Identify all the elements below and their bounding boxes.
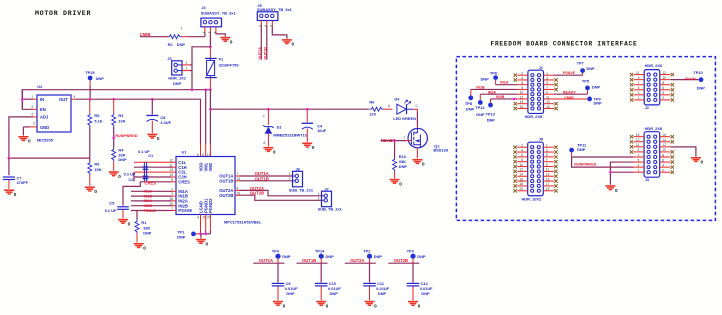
svg-text:13: 13 bbox=[170, 168, 174, 172]
wire READY to Q2 gate bbox=[381, 140, 407, 142]
test point TP4 bbox=[275, 254, 280, 259]
header J2 HDR_2X6 bbox=[630, 63, 674, 110]
test point TP3 bbox=[410, 254, 415, 259]
wire J4 pin2 to F1 bbox=[209, 33, 211, 47]
capacitor C9 0.01UF DNP bbox=[272, 281, 298, 300]
wire OUT2A stub bbox=[345, 262, 376, 264]
svg-text:5: 5 bbox=[638, 158, 640, 162]
wire rail to ground bbox=[200, 234, 202, 239]
svg-text:12: 12 bbox=[662, 71, 666, 75]
svg-text:12: 12 bbox=[662, 143, 666, 147]
svg-text:0: 0 bbox=[143, 246, 146, 251]
svg-text:MMBZ5231BWT1G: MMBZ5231BWT1G bbox=[273, 132, 307, 137]
svg-text:1: 1 bbox=[638, 96, 640, 100]
svg-text:TP5: TP5 bbox=[582, 78, 590, 83]
svg-text:VM2: VM2 bbox=[208, 162, 213, 171]
wire OUT1A bbox=[240, 175, 293, 177]
ground at C9 bbox=[273, 301, 286, 309]
svg-text:7: 7 bbox=[546, 86, 548, 90]
U1 pin 17 VM2 bbox=[207, 153, 213, 172]
svg-text:IN1B: IN1B bbox=[144, 194, 153, 198]
svg-text:PSAVE: PSAVE bbox=[563, 71, 576, 75]
svg-text:7: 7 bbox=[638, 81, 640, 85]
svg-text:9: 9 bbox=[546, 163, 548, 167]
svg-text:DNP: DNP bbox=[481, 76, 490, 81]
svg-text:DNP: DNP bbox=[177, 234, 186, 239]
svg-text:12: 12 bbox=[170, 158, 174, 162]
svg-text:R5: R5 bbox=[94, 113, 100, 118]
ground at J5 bbox=[282, 39, 295, 47]
wire J3 pin 1 to ground bbox=[610, 171, 633, 173]
U1 pin 3 IN1B bbox=[171, 192, 188, 199]
wire ANLIN from J2 bbox=[670, 79, 698, 81]
svg-text:OUT1B: OUT1B bbox=[302, 258, 316, 263]
junction LGND bbox=[199, 233, 202, 236]
test point TP9 bbox=[587, 97, 592, 102]
svg-text:TP3: TP3 bbox=[407, 248, 415, 253]
ground at R10 bbox=[390, 179, 403, 187]
svg-text:0: 0 bbox=[615, 188, 618, 193]
junction ADJ / C7 bbox=[8, 157, 11, 160]
capacitor C11 0.01UF DNP bbox=[363, 281, 389, 300]
svg-text:TP4: TP4 bbox=[272, 248, 280, 253]
ground at R9 bbox=[85, 187, 98, 195]
svg-text:HDR_10X2: HDR_10X2 bbox=[522, 197, 543, 202]
svg-text:D1: D1 bbox=[277, 124, 283, 129]
svg-text:15: 15 bbox=[546, 105, 550, 109]
U1 pin 9 CRES bbox=[171, 178, 190, 185]
svg-text:TP15: TP15 bbox=[85, 70, 95, 75]
svg-text:14: 14 bbox=[520, 173, 524, 177]
svg-text:11: 11 bbox=[546, 168, 550, 172]
U1 pin 11 C1H bbox=[170, 163, 187, 170]
svg-text:R2: R2 bbox=[168, 42, 174, 47]
resistor R6 220 bbox=[369, 99, 392, 116]
svg-text:0: 0 bbox=[94, 189, 97, 194]
U1 pin 12 C1L bbox=[170, 158, 187, 165]
wire C1H bbox=[134, 166, 172, 168]
svg-text:DNP: DNP bbox=[417, 254, 426, 259]
svg-text:1: 1 bbox=[31, 95, 33, 99]
capacitor C1 0.1UF bbox=[138, 149, 154, 181]
junction at J4 pin2 / F1 bbox=[209, 46, 212, 49]
svg-text:13: 13 bbox=[546, 100, 550, 104]
ground at U2 bbox=[18, 136, 31, 144]
wire R2 to J4 pin1 bbox=[187, 36, 205, 38]
svg-text:C2: C2 bbox=[128, 177, 134, 182]
svg-text:CRES: CRES bbox=[145, 181, 157, 186]
svg-text:0.1 UF: 0.1 UF bbox=[124, 171, 136, 176]
svg-text:U1: U1 bbox=[182, 149, 188, 154]
wire TP15 to rail2 bbox=[89, 80, 91, 86]
svg-text:10K: 10K bbox=[118, 119, 125, 124]
svg-text:6: 6 bbox=[662, 158, 664, 162]
ground at C11 bbox=[365, 301, 378, 309]
resistor R4 33K DNP bbox=[112, 148, 127, 171]
svg-text:DNP: DNP bbox=[421, 291, 430, 296]
U1 pin 15 PGND1 bbox=[202, 198, 208, 220]
wire RUNPWRGD to J3 pin 3 bbox=[572, 157, 634, 167]
wire OUT2B stub bbox=[388, 262, 419, 264]
svg-text:0: 0 bbox=[28, 139, 31, 144]
ground at C10 bbox=[316, 301, 329, 309]
svg-text:RUNPWRGD: RUNPWRGD bbox=[115, 134, 137, 138]
wire TP4 to C9 bbox=[277, 259, 279, 263]
resistor R1 33K DNP bbox=[135, 211, 152, 243]
wire LGND/PGND pins bbox=[200, 215, 202, 232]
capacitor C5 0.1UF bbox=[105, 182, 141, 219]
svg-text:15K: 15K bbox=[94, 167, 101, 172]
wire TP2 to C11 bbox=[369, 259, 371, 263]
U1 pin 18 IN2A bbox=[170, 197, 188, 204]
svg-text:14: 14 bbox=[662, 138, 666, 142]
wire J5 pin2 net OUT1B bbox=[266, 26, 268, 59]
svg-text:4: 4 bbox=[197, 216, 199, 220]
svg-text:2: 2 bbox=[181, 27, 183, 31]
svg-text:TP7: TP7 bbox=[577, 60, 584, 65]
svg-text:DNP: DNP bbox=[399, 164, 408, 169]
svg-text:11: 11 bbox=[636, 71, 640, 75]
svg-text:DNP: DNP bbox=[286, 291, 295, 296]
svg-text:HDR_2X8: HDR_2X8 bbox=[525, 114, 543, 119]
U1 pin 8 OUT2A bbox=[219, 187, 239, 194]
svg-text:DNP: DNP bbox=[586, 66, 595, 71]
svg-text:2: 2 bbox=[318, 197, 320, 201]
svg-text:8: 8 bbox=[237, 187, 239, 191]
svg-text:3: 3 bbox=[546, 76, 548, 80]
svg-text:DNP: DNP bbox=[173, 81, 182, 86]
wire TP1 to LGND rail bbox=[196, 233, 201, 235]
svg-text:R1: R1 bbox=[141, 220, 147, 225]
svg-text:DNP: DNP bbox=[594, 100, 603, 105]
driver IC U1 MPC17531ATEVBEL bbox=[176, 149, 262, 224]
svg-text:RUNPWRGD: RUNPWRGD bbox=[574, 163, 596, 167]
svg-text:BSS138: BSS138 bbox=[433, 148, 448, 153]
wire U2 GND to ground bbox=[23, 126, 30, 128]
svg-text:11: 11 bbox=[546, 95, 550, 99]
svg-text:6: 6 bbox=[521, 153, 523, 157]
svg-text:12: 12 bbox=[520, 168, 524, 172]
svg-text:2: 2 bbox=[289, 177, 291, 181]
svg-text:R3: R3 bbox=[118, 113, 124, 118]
test point TP7 bbox=[580, 68, 585, 73]
wire VDD pin stub bbox=[200, 144, 202, 157]
ground at C8 bbox=[147, 134, 160, 142]
junction VM2/F1 on rail1 bbox=[209, 88, 212, 91]
svg-text:0: 0 bbox=[283, 303, 286, 308]
svg-text:5: 5 bbox=[74, 95, 76, 99]
connector J4 SUBASSY_TB_3x1 bbox=[201, 5, 237, 34]
svg-text:IN1B: IN1B bbox=[476, 86, 485, 90]
ground in freedom box (left) bbox=[605, 185, 618, 193]
wire U2 ADJ feedback bbox=[9, 117, 90, 158]
svg-text:17: 17 bbox=[546, 182, 550, 186]
wire C1L bbox=[134, 161, 172, 163]
test point TP15 bbox=[88, 76, 93, 81]
svg-text:19: 19 bbox=[546, 187, 550, 191]
svg-text:FREEDOM BOARD CONNECTOR INTERF: FREEDOM BOARD CONNECTOR INTERFACE bbox=[491, 41, 638, 48]
svg-text:DNP: DNP bbox=[96, 76, 105, 81]
svg-text:DNP: DNP bbox=[466, 106, 475, 111]
junction R3 top bbox=[112, 98, 115, 101]
svg-text:9: 9 bbox=[638, 148, 640, 152]
svg-text:C5: C5 bbox=[109, 200, 115, 205]
svg-text:HDR_1X2: HDR_1X2 bbox=[168, 75, 186, 80]
svg-text:16: 16 bbox=[520, 105, 524, 109]
svg-text:470PF: 470PF bbox=[17, 180, 29, 185]
svg-text:0: 0 bbox=[326, 303, 329, 308]
ground at R4 bbox=[109, 171, 122, 179]
svg-text:4: 4 bbox=[521, 76, 523, 80]
svg-text:U2: U2 bbox=[37, 84, 43, 89]
junction on IN2B wire bbox=[513, 98, 516, 101]
svg-text:OUT1B: OUT1B bbox=[219, 178, 233, 183]
svg-text:10: 10 bbox=[520, 91, 524, 95]
junction J3 column on rail1 bbox=[191, 88, 194, 91]
capacitor C4 10uF bbox=[302, 109, 327, 142]
ground at C12 bbox=[408, 301, 421, 309]
U1 pin 20 PGND2 bbox=[207, 198, 213, 220]
test point TP5 bbox=[585, 86, 590, 91]
svg-text:SUB_TB_2x1: SUB_TB_2x1 bbox=[289, 188, 314, 193]
svg-text:3: 3 bbox=[546, 148, 548, 152]
svg-text:6: 6 bbox=[662, 86, 664, 90]
test point TP6 bbox=[493, 75, 498, 80]
svg-text:OUT2B: OUT2B bbox=[219, 193, 233, 198]
svg-text:0: 0 bbox=[399, 181, 402, 186]
connector J7 SUB_TB_2x1 bbox=[318, 186, 343, 211]
wire J3 pin 5 to ground bbox=[610, 162, 633, 185]
wire IN2A to J1 bbox=[479, 94, 481, 100]
wire VM branch to D1/C4/R6 bbox=[210, 108, 369, 110]
svg-text:MPC17531ATEVBEL: MPC17531ATEVBEL bbox=[224, 219, 262, 224]
svg-text:4: 4 bbox=[662, 91, 664, 95]
wire ground rail bbox=[201, 233, 211, 235]
svg-text:6: 6 bbox=[521, 81, 523, 85]
svg-text:READY: READY bbox=[563, 91, 576, 95]
svg-text:2: 2 bbox=[521, 72, 523, 76]
svg-text:PSAVE: PSAVE bbox=[144, 209, 157, 213]
svg-text:IN1A: IN1A bbox=[144, 190, 153, 194]
wire OUT1B bbox=[240, 180, 293, 182]
capacitor C8 3.3UF bbox=[146, 99, 171, 133]
svg-text:SUBASSY_TB_3x1: SUBASSY_TB_3x1 bbox=[201, 11, 237, 16]
svg-text:OUT1B: OUT1B bbox=[255, 176, 269, 181]
U1 pin 16 OUT2B bbox=[219, 191, 240, 198]
test point TP2 bbox=[367, 254, 372, 259]
svg-text:5: 5 bbox=[197, 153, 199, 157]
U1 pin 6 VM1 bbox=[202, 153, 208, 172]
test point TP10 bbox=[699, 77, 704, 82]
svg-text:12: 12 bbox=[520, 95, 524, 99]
U1 pin 19 IN2B bbox=[170, 202, 188, 209]
wire / net label PSAVE bbox=[131, 209, 172, 213]
svg-text:DNP: DNP bbox=[143, 230, 152, 235]
svg-text:0: 0 bbox=[230, 39, 233, 44]
svg-text:PGND2: PGND2 bbox=[208, 198, 213, 213]
svg-text:DNP: DNP bbox=[592, 84, 601, 89]
capacitor C12 0.01UF DNP bbox=[407, 281, 433, 300]
svg-text:DNP: DNP bbox=[697, 86, 706, 91]
svg-text:OUT2B: OUT2B bbox=[394, 258, 408, 263]
svg-text:DNP: DNP bbox=[476, 112, 485, 117]
svg-text:0: 0 bbox=[292, 42, 295, 47]
svg-text:7: 7 bbox=[237, 172, 239, 176]
test point TP1 bbox=[191, 232, 196, 237]
svg-text:0: 0 bbox=[128, 221, 131, 226]
svg-text:EN: EN bbox=[40, 107, 46, 112]
svg-text:R6: R6 bbox=[369, 99, 375, 104]
svg-text:1: 1 bbox=[318, 192, 320, 196]
svg-text:4: 4 bbox=[662, 163, 664, 167]
svg-text:3: 3 bbox=[638, 91, 640, 95]
svg-text:DNP: DNP bbox=[118, 157, 127, 162]
ground at J4 bbox=[220, 37, 233, 45]
svg-text:14: 14 bbox=[520, 100, 524, 104]
zener diode D1 MMBZ5231BWT1G bbox=[263, 109, 308, 146]
svg-text:7: 7 bbox=[546, 158, 548, 162]
svg-text:4: 4 bbox=[521, 148, 523, 152]
svg-text:0: 0 bbox=[206, 241, 209, 246]
ground at D1 bbox=[263, 147, 276, 155]
svg-text:8: 8 bbox=[662, 153, 664, 157]
svg-text:C1: C1 bbox=[148, 153, 154, 158]
connector J3 HDR_1X2 (DNP) bbox=[167, 56, 190, 86]
connector J5 SUBASSY_TB_3x1 bbox=[257, 3, 293, 27]
ground at C4 bbox=[302, 143, 315, 151]
svg-text:9: 9 bbox=[546, 91, 548, 95]
svg-text:2: 2 bbox=[662, 96, 664, 100]
wire / net label IN1B bbox=[131, 194, 172, 198]
junction VM1 on rail1 bbox=[204, 88, 207, 91]
svg-text:R9: R9 bbox=[94, 161, 100, 166]
svg-text:15: 15 bbox=[636, 133, 640, 137]
svg-text:1: 1 bbox=[403, 136, 405, 140]
svg-text:IN1A: IN1A bbox=[500, 81, 509, 85]
svg-text:0: 0 bbox=[701, 160, 704, 165]
svg-text:OUT1A: OUT1A bbox=[258, 47, 262, 60]
junction D1 bbox=[267, 108, 270, 111]
svg-text:CMIB: CMIB bbox=[564, 96, 574, 100]
resistor R5 5.1K bbox=[88, 99, 103, 127]
svg-text:1: 1 bbox=[638, 168, 640, 172]
svg-text:TP12: TP12 bbox=[475, 105, 485, 110]
wire IN2B to J1 bbox=[490, 99, 492, 103]
svg-text:10: 10 bbox=[662, 148, 666, 152]
wire J4 pin1 bbox=[204, 33, 206, 37]
test point TP14 bbox=[319, 254, 324, 259]
junction VM branch bbox=[209, 108, 212, 111]
svg-text:0: 0 bbox=[14, 192, 17, 197]
svg-text:2: 2 bbox=[186, 61, 188, 65]
svg-text:DNP: DNP bbox=[326, 254, 335, 259]
svg-text:2: 2 bbox=[662, 168, 664, 172]
wire CRES bbox=[140, 181, 171, 183]
U1 pin 4 LGND bbox=[197, 201, 203, 219]
wire CMIB to R2 bbox=[140, 36, 168, 38]
svg-text:10: 10 bbox=[520, 163, 524, 167]
svg-text:LED GREEN: LED GREEN bbox=[393, 116, 416, 121]
wire C2L bbox=[134, 171, 172, 173]
ground at C5 bbox=[118, 219, 131, 227]
svg-text:16: 16 bbox=[662, 133, 666, 137]
svg-text:DNP: DNP bbox=[374, 254, 383, 259]
svg-text:3216FF750: 3216FF750 bbox=[219, 62, 239, 67]
wire C2H bbox=[134, 176, 172, 178]
wire VM2 drop bbox=[209, 90, 211, 144]
wire J4 pin3 to ground bbox=[216, 33, 225, 37]
wire TP11 to J3 pin 7 bbox=[571, 153, 573, 157]
transistor Q2 BSS138 bbox=[406, 128, 449, 158]
svg-text:D4: D4 bbox=[394, 96, 400, 101]
wire OUT2B bbox=[240, 195, 322, 200]
wire IN1A to J1 bbox=[495, 80, 497, 85]
U1 pin 13 C2L bbox=[170, 168, 187, 175]
svg-text:10: 10 bbox=[662, 76, 666, 80]
svg-text:15: 15 bbox=[546, 177, 550, 181]
svg-text:DNP: DNP bbox=[577, 147, 586, 152]
svg-text:GND: GND bbox=[40, 125, 49, 130]
wire VDD rail (rail2) from U2 OUT bbox=[76, 99, 201, 144]
wire VM rail (rail1) bbox=[22, 90, 210, 109]
test point TP8 bbox=[468, 95, 473, 100]
svg-text:DNP: DNP bbox=[487, 117, 496, 122]
capacitor C7 470PF bbox=[3, 158, 29, 189]
ground in freedom box (right) bbox=[691, 157, 704, 165]
svg-text:9: 9 bbox=[638, 76, 640, 80]
svg-text:0: 0 bbox=[157, 136, 160, 141]
wire VM1 drop bbox=[205, 90, 207, 144]
wire TP14 to C10 bbox=[320, 259, 322, 263]
svg-text:OUT1A: OUT1A bbox=[259, 258, 273, 263]
U1 pin 10 C2H bbox=[170, 173, 187, 180]
svg-text:0: 0 bbox=[422, 162, 425, 167]
junction ground branch bbox=[609, 171, 612, 174]
svg-text:3.3UF: 3.3UF bbox=[160, 120, 171, 125]
wire OUT1B stub bbox=[297, 262, 328, 264]
svg-text:TP13: TP13 bbox=[486, 111, 496, 116]
test point TP13 bbox=[488, 103, 493, 108]
svg-text:13: 13 bbox=[636, 138, 640, 142]
U1 pin 7 OUT1A bbox=[219, 172, 239, 179]
svg-text:17: 17 bbox=[207, 153, 211, 157]
resistor R9 15K bbox=[88, 161, 102, 186]
test point TP12 bbox=[478, 100, 483, 105]
wire IN1B to J1 bbox=[470, 89, 472, 95]
svg-text:1: 1 bbox=[289, 172, 291, 176]
wire PSAVE from J1 bbox=[554, 74, 583, 76]
svg-text:1: 1 bbox=[186, 67, 188, 71]
capacitor C10 0.01UF DNP bbox=[315, 281, 341, 300]
resistor R3 10K bbox=[112, 99, 126, 127]
svg-text:IN2B: IN2B bbox=[144, 204, 153, 208]
svg-text:OUT1B: OUT1B bbox=[264, 47, 268, 60]
wire R5 to R9 / ADJ rail bbox=[89, 127, 91, 161]
ground at R1 bbox=[134, 243, 147, 251]
header J5 (freedom) HDR_10X2 bbox=[513, 136, 557, 201]
svg-text:1: 1 bbox=[546, 144, 548, 148]
ground at Q2 bbox=[412, 159, 425, 167]
U1 pin 5 VDD bbox=[197, 153, 203, 172]
svg-text:DNP: DNP bbox=[378, 291, 387, 296]
wire U2 IN/EN tie bbox=[22, 90, 33, 110]
capacitor C2 0.1UF (labels) bbox=[124, 171, 149, 181]
wire J3 pins to VM column bbox=[190, 64, 192, 66]
svg-text:HDR_2X6: HDR_2X6 bbox=[645, 63, 663, 68]
svg-text:SUB_TB_2x1: SUB_TB_2x1 bbox=[318, 207, 343, 212]
wire J5 pin1 net OUT1A bbox=[260, 26, 262, 59]
wire CMIB from J1 bbox=[554, 98, 587, 100]
